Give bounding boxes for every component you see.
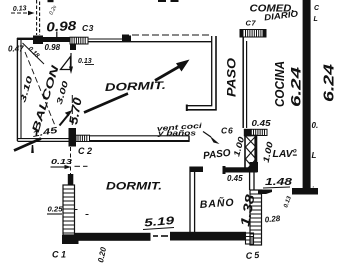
svg-text:0.45: 0.45	[252, 119, 272, 128]
window C2 (hatched)	[76, 135, 90, 141]
svg-text:PASO: PASO	[225, 57, 239, 97]
dashed line below C2 pillar	[70, 147, 72, 174]
svg-text:COCINA: COCINA	[273, 61, 287, 107]
svg-text:6.24: 6.24	[321, 63, 338, 102]
svg-text:0.28: 0.28	[264, 214, 281, 225]
pillar at window C2	[69, 128, 77, 147]
balcony diagonal leader line	[25, 52, 56, 128]
door swing mark (triangle)	[61, 57, 71, 70]
svg-text:0.13: 0.13	[13, 5, 27, 13]
svg-text:1.48: 1.48	[265, 177, 293, 188]
door gap dashes	[153, 235, 168, 237]
svg-text:0.98: 0.98	[45, 43, 61, 52]
svg-text:6.24: 6.24	[289, 66, 304, 107]
svg-text:C6: C6	[221, 126, 233, 136]
svg-text:C3: C3	[82, 23, 94, 33]
window 0.45 (hatched, below cocina)	[244, 129, 267, 137]
svg-text:0.13: 0.13	[51, 157, 73, 166]
svg-text:DORMIT.: DORMIT.	[105, 80, 166, 94]
svg-text:C1: C1	[52, 250, 69, 260]
dimension line at x=72.3	[71, 95, 73, 133]
vertical dimension line at x=71	[70, 53, 72, 70]
svg-text:y baños: y baños	[157, 129, 196, 138]
svg-text:L: L	[314, 16, 318, 23]
svg-text:L: L	[312, 151, 317, 160]
svg-text:C7: C7	[246, 19, 257, 28]
shaft corner block	[250, 162, 259, 172]
wall: top thick segment left of window C3	[43, 37, 70, 42]
svg-text:LAV: LAV	[273, 149, 294, 160]
svg-text:DORMIT.: DORMIT.	[106, 181, 162, 193]
wall: balcony left (double)	[17, 38, 33, 141]
window C3 (hatched)	[70, 37, 88, 44]
wall: paso left vertical (double) + corner	[187, 36, 217, 111]
wall: top double line to paso corner	[88, 35, 212, 42]
wall: dormit1/dormit2 divider (hollow double)	[90, 136, 190, 142]
wall: balcony bottom (double)	[17, 139, 68, 142]
wall: bottom (baño) right part	[170, 232, 246, 241]
window C7 (hatched, top)	[240, 30, 266, 38]
svg-text:0.45: 0.45	[227, 174, 243, 183]
top wedge	[258, 190, 272, 195]
horizontal ladder patch at C5 bottom	[246, 233, 254, 244]
wall: paso/lavo bottom	[223, 166, 258, 174]
window C1 (vertical ladder)	[62, 174, 79, 244]
wall: baño right vertical (double)	[250, 173, 254, 191]
pillar below window C3 left end	[70, 44, 76, 51]
tick below 0.98	[56, 32, 57, 38]
svg-text:0.: 0.	[312, 121, 319, 130]
wall: baño left vertical (double) + top serif	[190, 167, 204, 233]
svg-text:BAÑO: BAÑO	[199, 196, 235, 211]
dimension arrow under 0.13	[11, 12, 33, 14]
arrow near 5.70	[60, 115, 69, 126]
svg-text:0.98: 0.98	[46, 18, 78, 35]
party wall (thick black)	[303, 0, 311, 189]
wall: cocina left vertical (double)	[243, 37, 246, 128]
svg-text:0.13: 0.13	[78, 58, 92, 65]
balcony entrance arrow (thick diagonal)	[14, 139, 41, 151]
top edge dash fragments	[48, 0, 179, 2]
svg-text:0.25: 0.25	[48, 205, 64, 214]
window C5 (vertical ladder)	[250, 190, 272, 246]
wall: bottom (dormit2) left part	[75, 233, 151, 241]
vertical dashed property line above pillar	[37, 0, 40, 35]
svg-text:o: o	[293, 149, 297, 155]
small tick below wall	[31, 145, 34, 153]
wall: top-left corner pillar	[33, 36, 43, 45]
party wall foot	[292, 188, 318, 195]
vent shaft wall (X-hatched)	[245, 136, 257, 172]
svg-text:0.47: 0.47	[8, 45, 24, 54]
leader arrow to shaft	[203, 132, 211, 138]
big arrow to dormit1	[84, 60, 190, 113]
svg-text:C2: C2	[78, 146, 95, 156]
svg-text:,: ,	[313, 182, 315, 189]
svg-text:C5: C5	[245, 250, 261, 261]
diagonal dimension 0.18	[23, 43, 45, 64]
